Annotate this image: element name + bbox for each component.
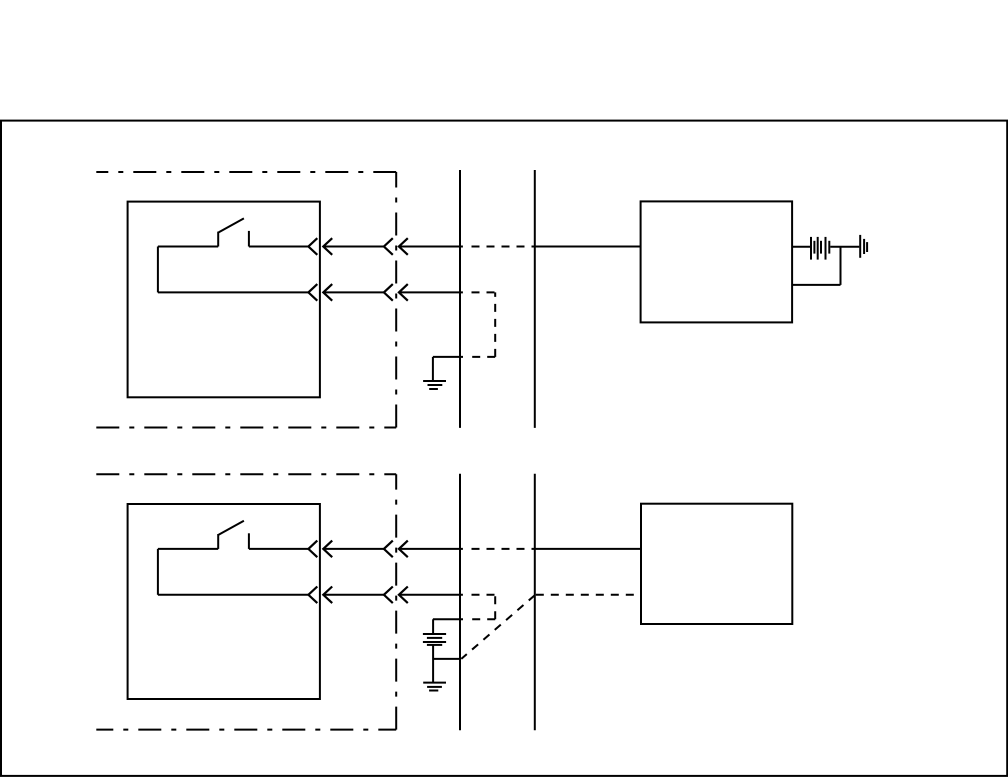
wire [433,618,463,620]
dash-dot enclosure (top unit, open left side) [96,172,396,428]
ground (top section) [423,381,446,389]
connector arrows (bottom wire 2, box edge) [308,587,332,604]
wire [399,291,463,293]
connector arrows (bottom wire 1, enclosure edge) [384,541,408,558]
switch contact (top) [218,218,249,246]
wire [840,247,842,285]
wire (dashed) [472,594,496,596]
ECU box (top right) [641,201,793,322]
wire (dashed) [494,292,496,357]
wire [323,594,384,596]
wire [249,246,308,248]
ground (bottom section) [423,683,446,691]
switch body box (bottom) [128,504,320,699]
junction bus line 1 (bottom) [459,474,461,730]
connector arrows (top wire 1, box edge) [308,238,332,255]
wire [433,356,463,358]
wire [158,246,218,248]
connector arrows (bottom wire 1, box edge) [308,541,332,558]
wire [249,548,308,550]
wire [432,619,434,634]
junction bus line 2 (top) [534,170,536,428]
wire [399,246,463,248]
wire [432,645,434,683]
connector arrows (top wire 2, enclosure edge) [384,284,408,301]
wire (dashed) [472,246,535,248]
dash-dot enclosure (bottom unit, open left side) [96,474,396,729]
wire [399,548,463,550]
wire [792,284,840,286]
wire [830,246,859,248]
junction bus line 1 (top) [459,170,461,428]
connector arrows (bottom wire 2, enclosure edge) [384,587,408,604]
chassis ground (right) [860,235,867,258]
wire [399,594,463,596]
wire [535,548,641,550]
wire (dashed) [536,594,641,596]
wire [323,291,384,293]
battery (multi-cell, top right) [811,237,829,260]
wire [433,658,460,660]
wire [535,246,641,248]
wire [792,246,810,248]
wire (dashed) [470,618,495,620]
wire [157,247,159,293]
wire [323,246,384,248]
wire (dashed) [470,356,495,358]
junction bus line 2 (bottom) [534,474,536,730]
wire [158,548,218,550]
wire (dashed diagonal) [461,595,535,659]
connector arrows (top wire 1, enclosure edge) [384,238,408,255]
wire [323,548,384,550]
switch body box (top) [128,202,320,398]
wire [158,594,308,596]
battery (bottom section) [423,634,446,645]
wire [158,291,308,293]
wire (dashed) [472,291,496,293]
wire (dashed) [494,595,496,620]
switch contact (bottom) [218,521,249,549]
wire (dashed) [472,548,535,550]
connector arrows (top wire 2, box edge) [308,284,332,301]
wire [432,357,434,381]
ECU box (bottom right) [641,504,792,624]
wire [157,549,159,595]
